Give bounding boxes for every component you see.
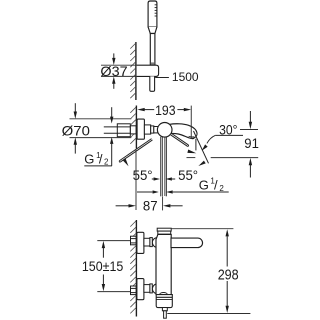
bottom ball joint	[152, 284, 162, 294]
svg-text:2: 2	[104, 158, 109, 167]
pipe stub to body	[154, 127, 159, 133]
87 right extension (pipe centreline)	[162, 196, 164, 210]
svg-text:55°: 55°	[178, 167, 198, 183]
dimension 87	[116, 150, 183, 210]
inner tube ellipse	[160, 293, 168, 296]
spout mouth lip	[190, 137, 194, 140]
top union (in wall)	[131, 236, 137, 245]
cap bands	[157, 228, 171, 231]
dimension 298	[167, 229, 250, 314]
nipple	[162, 308, 167, 311]
short vertical below spout mouth	[195, 139, 197, 151]
svg-text:/: /	[99, 152, 103, 167]
svg-text:G: G	[199, 178, 209, 193]
wall holder bracket	[137, 65, 159, 76]
drum (shower outlet)	[156, 295, 172, 308]
dimension 150+-15 extensions	[97, 241, 130, 292]
leader line 1500	[155, 77, 169, 79]
dimension O70 arrows	[74, 103, 77, 153]
dimension 193	[137, 108, 191, 111]
svg-text:150±15: 150±15	[82, 259, 124, 274]
spout	[169, 124, 197, 139]
bottom union (in wall)	[131, 286, 137, 295]
G1/2 union small arrows	[110, 107, 113, 166]
svg-text:298: 298	[218, 267, 239, 283]
svg-text:G: G	[84, 152, 94, 167]
dimension 150+-15 arrows	[102, 241, 105, 291]
extension line at spout end	[190, 106, 192, 139]
wall hatch (bottom)	[130, 221, 136, 313]
wall (top section)	[135, 42, 137, 100]
supply pipe lines (in wall)	[104, 127, 131, 133]
svg-text:Ø37: Ø37	[100, 63, 127, 79]
left lever position	[119, 139, 152, 167]
label G 1/2 left	[84, 151, 109, 167]
hose connector below bracket	[150, 76, 155, 91]
svg-text:30°: 30°	[219, 122, 237, 138]
dimension O70 extensions	[70, 119, 132, 138]
dimension line O37 extensions	[101, 65, 136, 76]
outlet pipe below body	[161, 137, 167, 197]
svg-text:91: 91	[244, 135, 259, 151]
lever (side view)	[171, 238, 203, 248]
shower head spray ticks	[155, 5, 158, 16]
small outlet arrows pair 2 / right G1-2 leader	[137, 190, 229, 193]
svg-text:2: 2	[219, 184, 224, 193]
wall hatch (middle)	[130, 107, 136, 144]
shower handle	[150, 34, 155, 66]
small outlet arrows pair 1	[152, 177, 175, 180]
top escutcheon	[137, 232, 144, 253]
union body (in wall)	[117, 124, 130, 137]
svg-text:193: 193	[155, 102, 176, 118]
30deg leader	[202, 135, 243, 150]
wall hatch (top)	[130, 43, 136, 98]
dimension O37 arrows	[112, 53, 115, 88]
water stream line 30deg	[194, 131, 209, 166]
hand shower head	[148, 1, 157, 34]
bottom nut	[144, 285, 150, 293]
spout mouth inner line	[189, 135, 195, 138]
top ball joint	[152, 238, 162, 248]
svg-text:Ø70: Ø70	[62, 123, 90, 139]
svg-text:1500: 1500	[172, 70, 199, 84]
wall (bottom section)	[135, 220, 137, 317]
wall (middle section)	[135, 106, 137, 149]
body circle (cartridge)	[157, 123, 172, 138]
dimension 91	[187, 111, 259, 178]
bottom escutcheon	[137, 279, 144, 300]
escutcheon (middle)	[137, 119, 144, 139]
right lever position	[171, 134, 197, 154]
top nut	[144, 238, 150, 246]
body (side view)	[156, 234, 171, 294]
label G 1/2 right	[199, 176, 225, 193]
svg-text:87: 87	[143, 198, 158, 214]
union nut at wall	[130, 126, 136, 134]
G1/2 left underline	[84, 165, 112, 167]
nut (middle)	[144, 125, 150, 134]
svg-text:/: /	[214, 178, 218, 193]
